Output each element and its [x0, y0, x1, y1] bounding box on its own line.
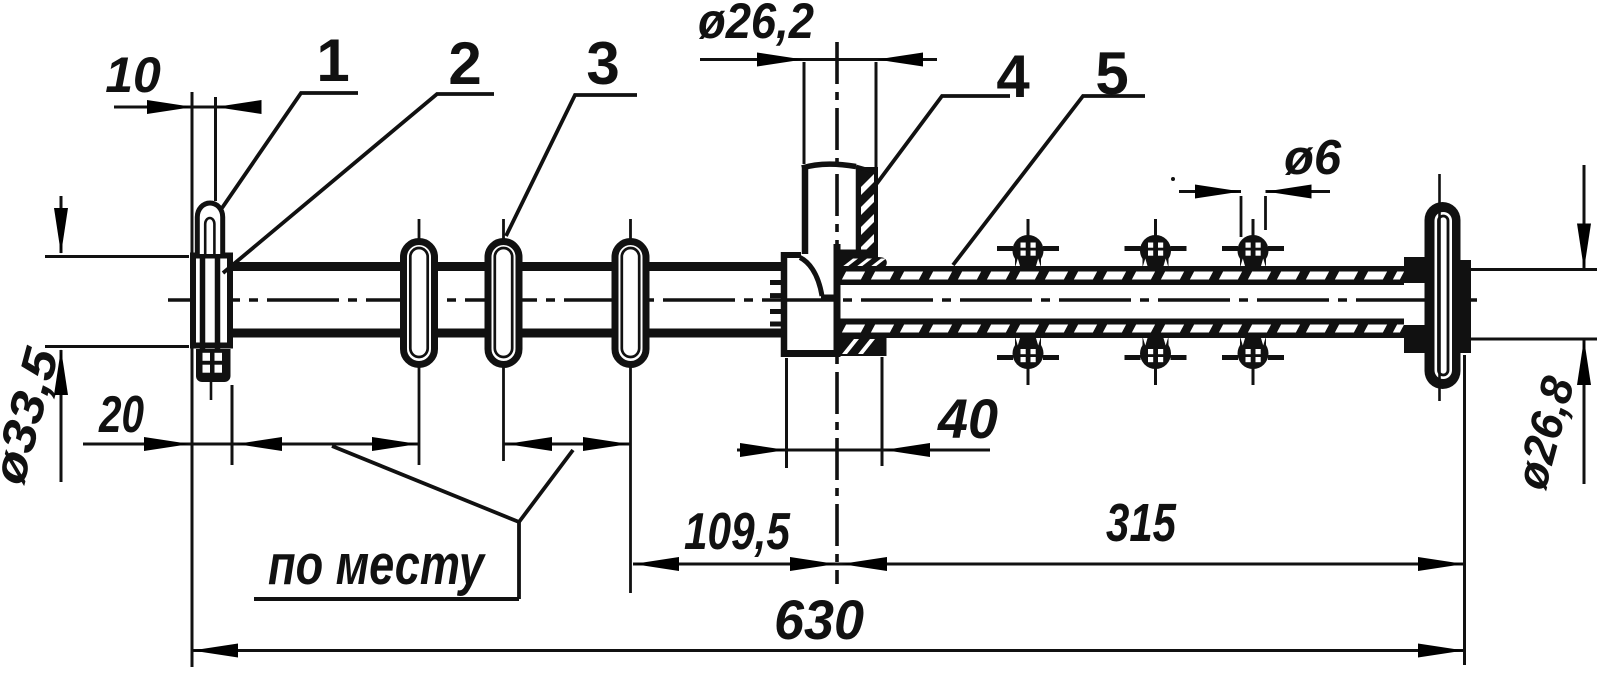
flange body (left end) — [193, 256, 230, 346]
dimension dia26.2 line — [700, 58, 937, 61]
dimension 109.5-315 line — [633, 563, 1464, 566]
tube bottom wall — [837, 319, 1404, 339]
dimension dia6 line — [1179, 190, 1241, 193]
svg-text:4: 4 — [996, 43, 1030, 110]
svg-text:3: 3 — [586, 30, 619, 97]
centerline vertical axis — [835, 42, 839, 584]
dimension 40 line — [737, 449, 990, 452]
rivet bolt 2 top — [1154, 219, 1157, 240]
rivet bolt 3 top — [1252, 219, 1255, 240]
shaft bottom edge — [233, 329, 784, 338]
chain dimension line left — [83, 443, 418, 446]
dimension dia26.8 arrows — [1583, 165, 1586, 270]
svg-text:по месту: по месту — [268, 533, 487, 597]
joint block bottom edge — [781, 350, 840, 357]
collar 1 inner — [410, 248, 427, 357]
svg-text:109,5: 109,5 — [684, 503, 791, 561]
collar 2 outer — [488, 242, 519, 365]
collar 2 inner — [495, 248, 512, 357]
po mestu leader — [332, 446, 573, 522]
centerline horizontal axis — [168, 298, 1477, 302]
extension line pin right — [214, 97, 217, 201]
pin cap item1 outer — [197, 203, 222, 254]
rivet bolt 2 bottom — [1154, 364, 1157, 385]
svg-text:20: 20 — [98, 386, 144, 444]
callout 4 leader — [875, 96, 1010, 186]
extension lines 40 — [785, 358, 788, 468]
collar 3 inner — [622, 248, 639, 357]
extension line right end — [1463, 355, 1466, 665]
joint short horizontal — [821, 295, 837, 300]
svg-text:2: 2 — [448, 30, 481, 97]
right pin centerline — [1438, 174, 1441, 401]
vertical tube left wall — [802, 165, 809, 254]
extension line tube od bottom — [1467, 338, 1597, 341]
svg-text:40: 40 — [937, 387, 998, 450]
extension line tube od top — [1467, 268, 1597, 271]
svg-text:630: 630 — [774, 588, 864, 651]
svg-text:315: 315 — [1106, 493, 1177, 553]
extension line flange bottom — [45, 345, 189, 348]
bushing item4 hatched — [858, 167, 878, 253]
castellated nut below flange — [196, 349, 231, 382]
dimension dia33.5 vertical line and arrows — [60, 196, 63, 253]
rivet bolt 1 top — [1027, 219, 1030, 240]
joint block left face — [781, 252, 788, 357]
extension line left flange face — [191, 92, 194, 667]
chain dimension line right — [504, 443, 631, 446]
svg-text:1: 1 — [316, 27, 349, 94]
callout 2 leader — [223, 94, 494, 273]
svg-text:ø26,2: ø26,2 — [698, 0, 814, 49]
callout 5 leader — [953, 96, 1145, 265]
rivet bolt 1 bottom — [1027, 364, 1030, 385]
shaft top edge — [233, 262, 784, 271]
speck — [1171, 177, 1175, 181]
dimension 630 line — [192, 649, 1464, 652]
collar 1 centerline — [418, 219, 421, 242]
hidden thread dashes — [770, 280, 781, 285]
rivet bolt 3 bottom — [1252, 364, 1255, 385]
joint lower weld collar — [837, 337, 879, 356]
tube end block top — [1404, 257, 1429, 283]
collar 3 outer — [615, 242, 646, 365]
right pin slot — [1435, 212, 1453, 379]
pin cap item1 inner — [205, 218, 214, 254]
tube top wall — [837, 266, 1404, 285]
dimension 10 line with arrows — [114, 106, 261, 109]
collar 2 centerline — [502, 219, 505, 242]
tube saddle arc — [800, 258, 822, 297]
extension line bushing right — [875, 62, 878, 168]
svg-text:10: 10 — [105, 47, 161, 103]
extension line flange top — [45, 255, 189, 258]
callout 1 leader — [222, 93, 358, 208]
extension line shaft start — [231, 385, 234, 465]
right washer plate — [1450, 260, 1471, 353]
collar 1 outer — [404, 242, 435, 365]
pin shaft lines through flange — [200, 253, 206, 349]
callout 3 leader — [506, 95, 637, 236]
svg-text:ø6: ø6 — [1284, 131, 1342, 185]
right pin outer — [1425, 202, 1461, 389]
extension lines dia6 — [1240, 196, 1243, 237]
right tube end face — [834, 244, 841, 357]
vertical tube right wall — [856, 166, 862, 251]
joint block top edge — [781, 252, 801, 258]
tube end block bottom — [1404, 325, 1429, 353]
collar 3 centerline — [629, 219, 632, 242]
vertical tube top edge — [802, 164, 856, 168]
joint upper weld collar — [837, 250, 878, 259]
extension line tube left — [803, 62, 806, 164]
